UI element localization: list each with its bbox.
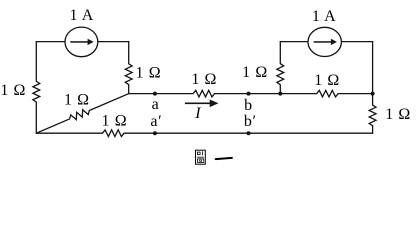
svg-text:1 Ω: 1 Ω xyxy=(385,106,411,123)
svg-text:1 Ω: 1 Ω xyxy=(0,82,26,99)
svg-text:1 Ω: 1 Ω xyxy=(314,72,340,89)
svg-text:1 A: 1 A xyxy=(69,7,93,24)
svg-text:1 Ω: 1 Ω xyxy=(242,64,268,81)
svg-text:b′: b′ xyxy=(244,113,257,130)
svg-text:a′: a′ xyxy=(150,113,162,130)
svg-text:a: a xyxy=(152,96,160,113)
svg-text:1 Ω: 1 Ω xyxy=(64,92,90,109)
svg-text:I: I xyxy=(194,105,201,122)
svg-text:b: b xyxy=(244,97,253,114)
svg-text:1 Ω: 1 Ω xyxy=(136,64,162,81)
svg-text:1 Ω: 1 Ω xyxy=(191,71,217,88)
svg-text:1 Ω: 1 Ω xyxy=(102,112,128,129)
svg-text:1 A: 1 A xyxy=(312,8,336,25)
